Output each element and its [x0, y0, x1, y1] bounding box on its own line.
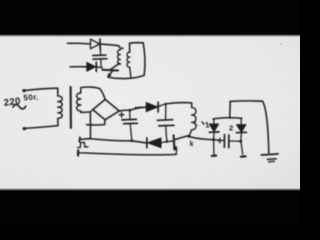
wire vertical drop to rail — [89, 112, 91, 139]
bridge rectifier — [90, 99, 119, 119]
diode VD1 — [91, 39, 101, 49]
node collector junction K — [188, 135, 191, 138]
wire emitter return — [84, 153, 176, 155]
label 220 50Hz — [3, 93, 39, 109]
wire bridge minus step — [87, 120, 105, 125]
transistor VT1 — [102, 63, 120, 77]
node base junction — [166, 140, 169, 143]
wire bottom return — [108, 75, 144, 78]
transformer T1 secondary — [77, 88, 81, 113]
terminal tick rail — [78, 137, 81, 141]
speck — [280, 44, 281, 45]
wire secondary bottom to bridge — [81, 111, 90, 114]
node VS2 cathode junction — [239, 140, 242, 143]
wire top run to ground drop — [230, 100, 262, 102]
capacitor C3 — [157, 104, 174, 142]
wire bridge plus output — [119, 109, 130, 112]
wire mains bottom — [24, 126, 58, 129]
node input top terminal — [22, 89, 25, 92]
wire mains top — [24, 88, 58, 90]
winding dot — [121, 47, 123, 49]
wire W2 top loop — [130, 43, 144, 53]
node input bottom terminal — [23, 127, 26, 130]
thyristor VS1 — [209, 119, 219, 140]
pulse input symbol — [78, 142, 88, 147]
svg-text:L: L — [195, 120, 199, 127]
terminal foot VS2 — [241, 155, 246, 157]
wire to diode VD3 — [130, 107, 146, 110]
terminal tick emitter return — [77, 150, 79, 155]
svg-text:2: 2 — [229, 124, 233, 133]
capacitor C4 — [214, 135, 241, 148]
diode VD4 — [147, 138, 167, 148]
wire ground drop — [263, 101, 269, 153]
wire base lead — [167, 140, 174, 142]
transformer winding W2 — [127, 52, 130, 67]
node C2 top junction — [129, 109, 132, 112]
wire thyristor anode rail — [213, 118, 242, 119]
wire rail up to top — [229, 101, 231, 118]
wire VS1 lead down — [213, 140, 215, 155]
wire top feed to inductor — [166, 103, 192, 104]
transformer winding W1 — [118, 50, 121, 64]
wire VD1 to winding W1 — [100, 44, 120, 50]
capacitor C2 electrolytic — [119, 110, 137, 140]
wire W2 bottom lead — [130, 67, 131, 78]
paper area — [0, 34, 300, 191]
svg-text:50г.: 50г. — [23, 93, 39, 103]
node C3 top junction — [165, 103, 167, 105]
svg-text:k: k — [190, 141, 194, 148]
thyristor VS2 — [236, 118, 246, 141]
wire lower-left input — [70, 66, 87, 68]
node rail C2 junction — [131, 139, 134, 142]
wire node K to thyristors — [189, 136, 213, 139]
wire top-left input of snubber circuit — [68, 42, 91, 45]
diode VD2 — [87, 62, 103, 71]
terminal foot VS1 — [212, 155, 216, 157]
tilde AC mark — [13, 105, 26, 109]
ground — [261, 154, 278, 162]
transistor VT2 — [174, 135, 189, 154]
diode VD3 — [135, 102, 166, 112]
node VS1 cathode junction — [212, 138, 215, 141]
wire right side down — [143, 43, 145, 75]
wire negative rail — [80, 139, 147, 143]
wire tick to rail — [78, 152, 84, 154]
transformer T1 primary — [58, 88, 62, 125]
capacitor C1 — [93, 44, 107, 67]
transformer T1 core — [70, 87, 72, 128]
inductor L1 — [189, 103, 196, 136]
wire VS2 lead down — [241, 141, 243, 154]
wire secondary top to bridge — [81, 87, 105, 99]
